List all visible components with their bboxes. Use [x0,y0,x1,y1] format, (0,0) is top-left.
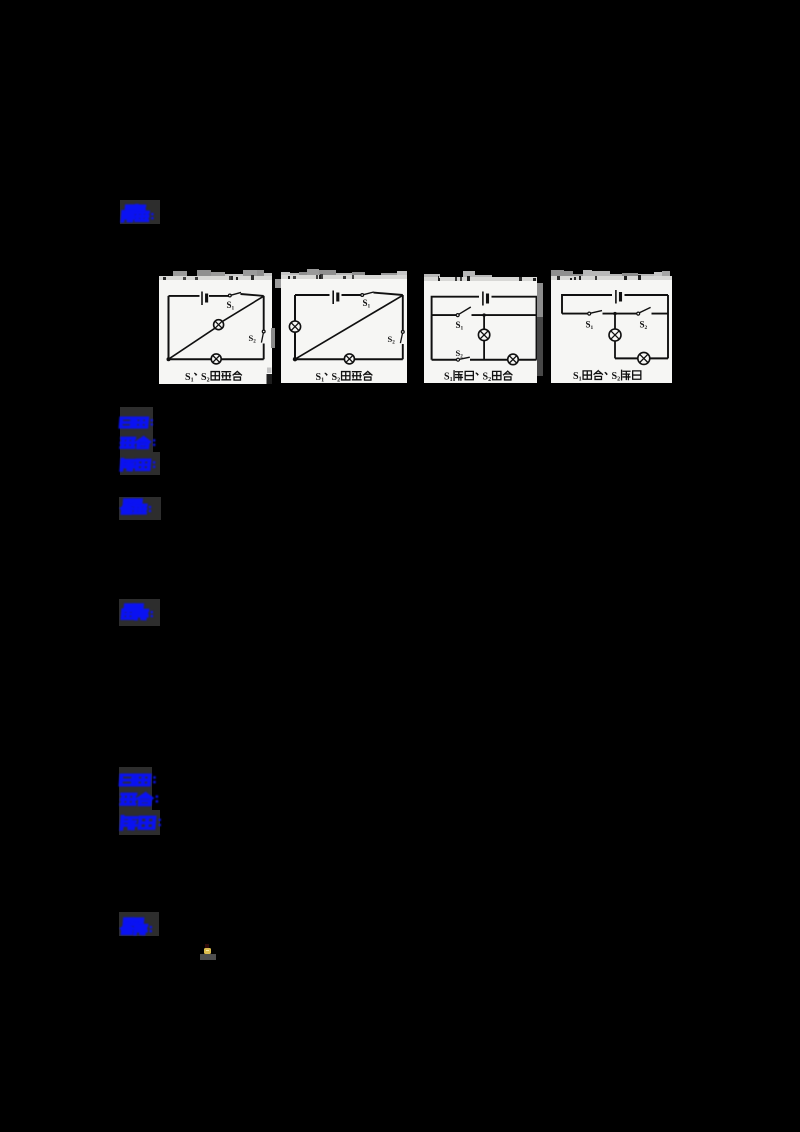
svg-text:1: 1 [579,377,582,383]
scan noise: gray patch right of panel 1 [271,328,275,348]
blue label text: g1-line1 [126,205,152,215]
figure panel 2 (white scanned image) [281,279,407,383]
answer label group 6 [119,912,159,936]
switch S2 (closed) on bottom wire [457,358,460,361]
svg-text:1: 1 [321,378,324,384]
blue label text: fenxi2 [121,816,155,832]
scan noise: clipped text fragments above figure [424,277,537,281]
answer label group 2 [120,407,153,475]
lamp L2 on bottom segment [638,352,650,364]
svg-text:2: 2 [392,340,395,346]
scan noise: gray blob left of panel 2 [275,279,281,288]
lamp L2 on bottom wire [508,354,519,365]
battery cell on top wire [201,292,203,306]
wire: battery loop top rectangle [432,297,537,315]
wire: top wire segments [295,293,403,295]
lamp L1 on diagonal [214,320,224,330]
wire: bottom wire segments [169,358,264,360]
blue label text: zhuanti [121,437,152,451]
battery cell at top centre [615,290,617,304]
switch S1 (closed) on second wire [588,312,591,315]
blue label text: g6-line2 [121,924,158,937]
scan noise: gray column between panels 3 and 4 [537,283,543,317]
svg-text:1: 1 [191,378,194,384]
blue label text: g3-line1 [124,499,150,509]
svg-text:1: 1 [461,326,464,332]
switch S2 on right wire [262,330,265,333]
scan noise: clipped text fragments above figure [281,275,407,279]
blue label text: g4-line2 [122,609,159,622]
svg-text:1: 1 [232,305,235,311]
svg-text:2: 2 [617,377,620,383]
switch S2 on right wire [401,331,404,334]
svg-text:2: 2 [337,378,340,384]
wire: battery loop top [562,295,668,314]
switch S1 (closed) on top wire [361,294,364,297]
battery cell on top wire [332,291,334,305]
svg-text:1: 1 [368,304,371,310]
blue label text: kaodian [120,417,152,431]
wire: bottom segment [615,357,668,359]
wire: centre vertical branch [614,314,616,359]
wire: left vertical to bottom [431,315,433,360]
svg-text:2: 2 [488,377,491,383]
junction on second wire [613,312,616,315]
svg-text:2: 2 [253,339,256,345]
wire: bottom wire segments [295,358,403,360]
svg-text:2: 2 [460,354,463,360]
icon gray patch below [200,954,216,960]
wire: middle wire segments [432,314,537,316]
blue label text: zhuanti2 [121,793,152,808]
answer label group 4 [119,599,160,626]
tiny emoji icon (yellow) [204,948,211,954]
lamp L1 on left wire [289,321,300,332]
wire: diagonal branch [169,296,264,359]
wire: left vertical of loop [168,296,170,359]
junction blob bottom-left corner [293,357,297,361]
scan noise: fragments bottom-right of panel 1 [267,368,272,374]
switch S2 (open) on second wire [637,312,640,315]
answer label group 1 [120,200,160,224]
wire: right vertical to bottom [536,315,538,360]
answer label group 5 [119,767,152,835]
svg-text:1: 1 [450,377,453,383]
blue label text: kaodian2 [120,774,152,789]
scan noise: clipped text fragments above figure [159,276,272,280]
switch S1 (closed) on top wire [228,294,231,297]
wire: right vertical [667,295,669,358]
blue label text: g3-line2 [121,504,158,517]
battery cell at top centre [482,292,484,306]
svg-text:1: 1 [591,325,594,331]
svg-text:2: 2 [645,325,648,331]
lamp L1 on centre branch [609,329,621,341]
switch S1 (open) on middle wire [456,314,459,317]
wire: right vertical segments [263,296,265,359]
answer label group 3 [119,497,161,520]
scan noise: clipped text fragments above figure [551,276,672,280]
svg-text:2: 2 [207,378,210,384]
lamp L1 on centre branch [478,329,489,340]
wire: bottom wire segments [432,359,537,361]
blue label text: g1-line2 [122,211,159,224]
junction on middle wire [482,313,485,316]
faint dark red speck [205,944,209,948]
figure panel 1 (white scanned image) [159,280,272,384]
blue label text: fenxi [121,459,154,473]
lamp L2 on bottom wire [344,354,354,364]
lamp L2 on bottom wire [211,354,221,364]
wire: right vertical segments [402,295,404,359]
wire: centre vertical branch [483,315,485,360]
figure panel 3 (white scanned image) [424,281,537,383]
blue label text: g6-line1 [124,918,152,928]
wire: diagonal branch [295,295,403,359]
wire: top wire segments [169,294,264,296]
junction blob bottom-left corner [167,357,171,361]
wire: second wire segments [562,313,668,315]
figure panel 4 (white scanned image) [551,280,672,383]
blue label text: g4-line1 [125,604,151,614]
wire: left vertical segments with lamp gap [294,295,296,359]
